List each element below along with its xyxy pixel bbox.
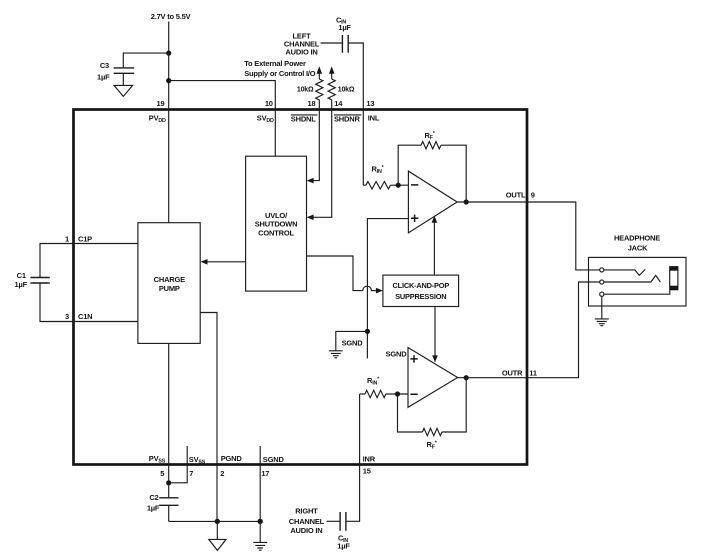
jack sleeve contact (600, 292, 604, 296)
node SGND junction (mid) (365, 329, 370, 334)
svg-text:10: 10 (265, 99, 273, 108)
block CHARGE PUMP (138, 223, 200, 344)
svg-text:13: 13 (366, 99, 374, 108)
svg-text:CHARGE: CHARGE (154, 275, 185, 284)
svg-text:15: 15 (363, 467, 371, 476)
capacitor C2 (168, 483, 170, 498)
svg-text:CHANNEL: CHANNEL (289, 517, 325, 526)
wire right feedback loop (398, 394, 423, 432)
node supply/SVDD junction (166, 78, 171, 83)
svg-text:SGND: SGND (386, 349, 408, 358)
wire C1N (40, 283, 138, 321)
ground (earth) below jack (595, 296, 609, 325)
wire OUTL pin 9 to jack (457, 202, 600, 270)
resistor RIN (left channel) (363, 184, 366, 186)
svg-text:PGND: PGND (221, 454, 243, 463)
svg-text:1µF: 1µF (338, 23, 351, 32)
wire SHDNL pin 18 to UVLO (313, 100, 320, 181)
ground (signal triangle) below C3 (114, 85, 133, 96)
node left amp output (464, 199, 469, 204)
svg-text:OUTR: OUTR (502, 368, 523, 377)
svg-text:Supply or Control I/O: Supply or Control I/O (244, 69, 316, 78)
svg-text:SUPPRESSION: SUPPRESSION (395, 292, 446, 301)
wire SGND stub pin 17 (259, 446, 261, 521)
resistor 10k (SHDNL pullup) (317, 66, 323, 73)
wire SGND branch to ground (336, 331, 368, 350)
wire left audio in to CIN (321, 42, 343, 44)
svg-text:11: 11 (529, 368, 537, 377)
svg-text:7: 7 (189, 469, 193, 478)
svg-text:1: 1 (65, 234, 69, 243)
node PVSS/SVSS junction (166, 480, 171, 485)
block CLICK-AND-POP SUPPRESSION (383, 275, 459, 306)
svg-text:1µF: 1µF (337, 541, 350, 550)
wire click-and-pop to right amp (arrow down) (434, 307, 436, 357)
svg-text:10kΩ: 10kΩ (297, 86, 314, 93)
svg-text:10kΩ: 10kΩ (338, 86, 355, 93)
wire bottom ground rail (169, 520, 261, 522)
capacitor C3 (114, 68, 135, 73)
jack plug body (669, 266, 678, 271)
resistor RIN (right channel) (360, 393, 365, 395)
IC outline U1 (74, 110, 528, 465)
svg-text:C1: C1 (17, 271, 26, 280)
wire left amp + input to SGND rail (367, 219, 408, 359)
wire right audio in to CIN (327, 520, 341, 522)
svg-text:1µF: 1µF (15, 280, 28, 289)
svg-text:AUDIO IN: AUDIO IN (285, 48, 317, 57)
svg-text:14: 14 (334, 99, 343, 108)
svg-text:2: 2 (220, 469, 224, 478)
resistor RF (left) (421, 142, 441, 149)
svg-text:18: 18 (308, 99, 316, 108)
ground (earth) SGND mid (329, 351, 343, 358)
wire UVLO to CHARGE PUMP (arrow) (207, 261, 246, 263)
wire CIN to INL pin 13 (348, 43, 363, 185)
capacitor C1 (30, 278, 49, 284)
op-amp right channel (408, 348, 458, 408)
node supply/C3 junction (166, 51, 171, 56)
svg-text:To External Power: To External Power (244, 59, 306, 68)
wire SVSS stub pin 7 (169, 446, 188, 483)
headphone jack J1 (589, 257, 687, 306)
capacitor CIN (right) (340, 512, 346, 531)
svg-text:17: 17 (261, 469, 269, 478)
wire CIN to INR pin 15 (346, 394, 360, 521)
wire SHDNR pin 14 to UVLO (313, 100, 332, 218)
wire left feedback loop (398, 145, 421, 185)
svg-text:OUTL: OUTL (506, 190, 526, 199)
wire click-and-pop to left amp (arrow up) (433, 222, 435, 276)
svg-text:SHDNL: SHDNL (291, 115, 316, 124)
capacitor CIN (left) (342, 35, 348, 53)
svg-text:SHUTDOWN: SHUTDOWN (255, 220, 298, 229)
svg-text:CLICK-AND-POP: CLICK-AND-POP (393, 281, 450, 290)
node SGND junction (258, 519, 263, 524)
svg-text:2.7V to 5.5V: 2.7V to 5.5V (151, 12, 191, 21)
svg-text:RIGHT: RIGHT (295, 507, 318, 516)
node left amp inverting input (396, 183, 401, 188)
svg-text:SGND: SGND (342, 338, 364, 347)
svg-text:9: 9 (531, 190, 535, 199)
svg-text:C1N: C1N (78, 312, 92, 321)
svg-text:1µF: 1µF (97, 73, 110, 82)
svg-text:19: 19 (157, 99, 165, 108)
resistor 10k (SHDNR pullup) (329, 66, 335, 73)
wire supply vertical PVDD (168, 22, 170, 223)
svg-text:SHDNR: SHDNR (334, 115, 360, 124)
wire OUTR pin 11 to jack (458, 282, 600, 378)
wire CHARGE PUMP to PGND pin 2 (200, 313, 217, 522)
wire C3 to ground (122, 73, 124, 85)
wire UVLO to CLICK-AND-POP (with hop) (307, 256, 378, 291)
jack tip contact (600, 268, 604, 272)
node PGND junction (215, 519, 220, 524)
wire SVDD branch (169, 81, 276, 157)
svg-text:AUDIO IN: AUDIO IN (290, 526, 322, 535)
svg-text:INR: INR (363, 454, 376, 463)
node right amp inverting input (395, 391, 400, 396)
wire C3 branch (123, 53, 168, 67)
svg-text:1µF: 1µF (147, 504, 160, 513)
svg-text:3: 3 (65, 312, 69, 321)
svg-text:C3: C3 (100, 61, 109, 70)
svg-text:UVLO/: UVLO/ (265, 211, 288, 220)
svg-text:C2: C2 (149, 493, 158, 502)
ground (earth) below SGND (253, 521, 267, 550)
svg-text:CONTROL: CONTROL (258, 228, 294, 237)
jack ring contact (600, 280, 604, 284)
svg-text:C1P: C1P (78, 234, 92, 243)
svg-text:SGND: SGND (263, 455, 285, 464)
wire CHARGE PUMP bottom to PVSS pin 5 (168, 343, 170, 482)
wire PGND to ground (216, 521, 218, 539)
svg-text:PUMP: PUMP (159, 284, 180, 293)
svg-text:HEADPHONE: HEADPHONE (614, 234, 660, 243)
svg-text:INL: INL (368, 113, 380, 122)
resistor RF (right) (422, 428, 442, 435)
svg-text:5: 5 (160, 469, 164, 478)
svg-text:JACK: JACK (628, 243, 648, 252)
node right amp output (464, 375, 469, 380)
op-amp left channel (408, 171, 457, 233)
wire C1P (40, 244, 138, 278)
block UVLO/SHUTDOWN CONTROL (246, 156, 307, 291)
ground (power triangle) below PGND (209, 539, 226, 550)
